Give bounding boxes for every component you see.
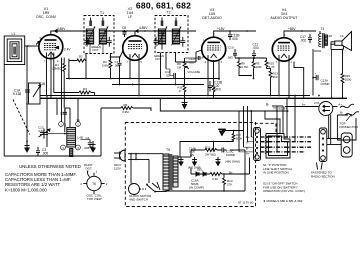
- wire T2 pin to AVC: [160, 53, 162, 79]
- rectifier line: [178, 156, 191, 158]
- svg-text:UNLESS OTHERWISE NOTED: UNLESS OTHERWISE NOTED: [19, 164, 81, 169]
- resistor R4 5.6M: [102, 57, 112, 79]
- svg-text:A+: A+: [246, 152, 250, 156]
- capacitor at T2 left: [154, 37, 159, 47]
- wire plug bottom: [128, 158, 149, 160]
- svg-text:100MF: 100MF: [226, 153, 236, 157]
- wire V1 grid return: [68, 59, 70, 79]
- tube V2: [123, 36, 148, 61]
- dashed extension to switch area: [255, 123, 277, 134]
- clock motor: [129, 184, 153, 202]
- svg-text:AUDIO OUTPUT: AUDIO OUTPUT: [270, 16, 298, 20]
- wire V2 plate up: [134, 31, 136, 36]
- trimmer cap C6 top: [102, 21, 105, 27]
- wire T2 sec to V3 diode: [175, 53, 177, 63]
- wire B+ jog to switch: [265, 111, 280, 134]
- svg-text:B-: B-: [246, 147, 249, 151]
- svg-text:WV: WV: [190, 153, 195, 157]
- switch contact strip right: [319, 128, 327, 162]
- svg-text:.005: .005: [232, 37, 238, 41]
- svg-text:680, 681, 682: 680, 681, 682: [136, 1, 191, 11]
- svg-text:A+: A+: [302, 102, 306, 106]
- svg-text:B-: B-: [340, 111, 343, 115]
- svg-text:RADIO SECTION: RADIO SECTION: [311, 175, 335, 179]
- svg-text:(IN COMP): (IN COMP): [189, 186, 204, 190]
- resistor R11 3.3M: [121, 103, 133, 114]
- bus A line: [40, 95, 310, 97]
- lever contact crosses: [265, 136, 269, 154]
- svg-text:COMP: COMP: [321, 82, 330, 86]
- wires V4 bottom: [278, 55, 280, 96]
- clock section dashed box: [125, 123, 255, 207]
- bottom supply line: [166, 190, 245, 192]
- capacitor C4: [81, 136, 94, 150]
- capacitor C12B: [228, 31, 239, 41]
- svg-text:C18: C18: [327, 34, 333, 38]
- svg-text:3.3K: 3.3K: [212, 177, 218, 181]
- svg-text:T2: T2: [167, 11, 171, 15]
- capacitor C11 .05: [165, 53, 175, 85]
- svg-text:AT 117V 60: AT 117V 60: [238, 201, 254, 205]
- resistor R12 2W 56: [205, 146, 219, 157]
- svg-text:B+: B+: [246, 135, 250, 139]
- svg-text:4.85V: 4.85V: [57, 27, 66, 31]
- svg-text:5.6M: 5.6M: [102, 64, 109, 68]
- svg-text:.05: .05: [166, 74, 171, 78]
- svg-text:1M: 1M: [177, 65, 182, 69]
- svg-text:OPERATION (ON VOL. CONT.): OPERATION (ON VOL. CONT.): [263, 189, 305, 193]
- wire antenna left down: [3, 65, 5, 157]
- wire V1 plate to B+ rail: [51, 31, 88, 35]
- switch frame S1: [266, 134, 290, 159]
- svg-text:★ MODELS 680 & 681 & 682: ★ MODELS 680 & 681 & 682: [263, 199, 303, 203]
- resistor R3 horizontal: [54, 87, 95, 96]
- svg-text:3.3M: 3.3M: [122, 110, 129, 114]
- capacitor C3: [36, 147, 48, 156]
- wire T1 coil bottom stubs: [90, 44, 103, 54]
- top connector box: [337, 115, 358, 141]
- svg-text:OSC. CONV: OSC. CONV: [36, 15, 57, 19]
- svg-text:A+: A+: [338, 102, 342, 106]
- capacitor C11: [252, 43, 259, 60]
- volume control R6 1M: [177, 58, 200, 74]
- svg-text:600Ω: 600Ω: [314, 49, 322, 53]
- wires V1 bottom pins: [46, 53, 48, 96]
- wire lower mid bus: [160, 98, 287, 111]
- capacitor C15A: [189, 179, 204, 190]
- wire V4 pin jog: [294, 62, 304, 99]
- svg-text:2 PL: 2 PL: [314, 101, 321, 105]
- svg-text:A-: A-: [246, 141, 249, 145]
- svg-text:+18V: +18V: [217, 27, 225, 31]
- wire coil pin2 up: [77, 98, 79, 121]
- svg-text:TO S2: TO S2: [273, 107, 282, 111]
- ground arrow clock box: [218, 129, 243, 135]
- B+ rail arrow: [55, 30, 58, 33]
- notes text block: [5, 164, 81, 192]
- svg-text:10MEG: 10MEG: [52, 67, 63, 71]
- svg-text:CONNECTOR: CONNECTOR: [339, 125, 359, 129]
- capacitor at T2 right: [180, 37, 185, 47]
- resistor R8 4.7M: [238, 58, 252, 76]
- switch contact strip left: [254, 128, 261, 161]
- wire speaker return: [331, 49, 343, 51]
- resistor R15 1000: [341, 50, 352, 99]
- speaker LS: [331, 32, 352, 51]
- svg-text:10M: 10M: [256, 65, 262, 69]
- ground left bottom: [24, 103, 29, 152]
- svg-text:C8: C8: [122, 26, 126, 30]
- IF transformer T1: [84, 11, 114, 54]
- tube V3: [202, 37, 226, 61]
- oscillator coil T6 schematic: [59, 119, 83, 157]
- wires to plug P1: [327, 138, 341, 140]
- resistor R13 360: [267, 69, 279, 96]
- svg-text:T6: T6: [92, 182, 96, 186]
- svg-text:DOT: DOT: [93, 48, 99, 52]
- selenium rectifier SEL: [191, 168, 210, 177]
- IF transformer T2: [154, 11, 188, 62]
- wires osc section verticals: [46, 96, 48, 148]
- svg-text:L1: L1: [12, 32, 16, 36]
- svg-text:C10: C10: [228, 46, 234, 50]
- lever junction dots: [286, 136, 288, 138]
- svg-text:B-: B-: [266, 103, 269, 107]
- ground right of coil: [90, 141, 95, 152]
- resistor R10 4.7K: [265, 58, 275, 69]
- tuning capacitor C1A: [13, 82, 45, 104]
- resistor R9 10M: [252, 58, 262, 79]
- svg-text:.002: .002: [300, 39, 306, 43]
- loop antenna L1: [4, 32, 25, 65]
- power transformer T5: [155, 148, 178, 192]
- svg-text:47: 47: [179, 89, 182, 93]
- wire mid link: [101, 107, 121, 109]
- svg-text:.004: .004: [253, 46, 259, 50]
- svg-text:T4: T4: [321, 27, 325, 31]
- pilot lamp circuit: [285, 101, 359, 116]
- wire T1 sec to V2 grid: [111, 51, 124, 58]
- trimmer C1C: [38, 126, 67, 139]
- wire top rail V2 area: [104, 30, 196, 32]
- svg-text:+: +: [315, 72, 317, 76]
- svg-text:.008: .008: [84, 146, 90, 150]
- ground C14: [188, 146, 201, 169]
- switch levers dash-dot: [261, 137, 312, 152]
- svg-text:T1: T1: [100, 11, 104, 15]
- resistor R14 27K: [223, 174, 233, 188]
- wire T2 primary top: [161, 31, 163, 50]
- arrow fastened: [317, 163, 323, 170]
- resistor R16 47: [178, 71, 186, 100]
- wire antenna top tap arrow: [36, 42, 39, 45]
- svg-text:L4B: L4B: [78, 136, 83, 140]
- svg-text:B+: B+: [283, 107, 287, 111]
- wire supply top row: [180, 142, 234, 158]
- ground mid supply: [216, 157, 221, 166]
- wires V3 bottom pins: [207, 55, 209, 96]
- wire left feed to clock switch: [238, 111, 240, 152]
- svg-text:TOP VIEW: TOP VIEW: [87, 197, 102, 201]
- wire antenna to V1 grid: [25, 45, 39, 47]
- resistor R2: [69, 54, 86, 79]
- wire V4 plate: [284, 31, 296, 38]
- svg-text:.005: .005: [189, 61, 195, 65]
- svg-text:VOLUME: VOLUME: [187, 70, 200, 74]
- svg-text:500K: 500K: [236, 136, 242, 140]
- bottom ground bus: [4, 155, 101, 157]
- output transformer T4: [314, 27, 332, 53]
- wire pilot down leads: [328, 115, 330, 139]
- wire plug top: [128, 153, 163, 155]
- ground lower mid: [182, 100, 188, 109]
- osc coil top view: [80, 163, 108, 201]
- wire V3 cathode row: [235, 57, 267, 59]
- gang dashed link: [13, 100, 30, 135]
- wire second bus: [112, 84, 204, 86]
- wires V2 bottom: [129, 54, 131, 79]
- svg-text:IN LINE POSITION: IN LINE POSITION: [263, 171, 289, 175]
- svg-text:LS: LS: [340, 34, 344, 38]
- resistor R1 10MEG vertical: [52, 58, 66, 109]
- capacitor C12A: [185, 54, 204, 65]
- capacitor C2: [60, 108, 67, 132]
- svg-text:AND SWITCH: AND SWITCH: [129, 198, 148, 202]
- svg-text:4.7M: 4.7M: [241, 65, 248, 69]
- svg-text:DET-AUDIO: DET-AUDIO: [202, 16, 222, 20]
- capacitor C13B electrolytic: [208, 81, 222, 92]
- capacitor C13A electrolytic: [312, 49, 329, 96]
- svg-text:9-138: 9-138: [13, 92, 21, 96]
- tube pin numbers: [40, 33, 293, 64]
- plug P1 right: [341, 133, 352, 157]
- svg-text:360: 360: [273, 75, 278, 79]
- svg-text:R2: R2: [79, 55, 83, 59]
- capacitor C17: [300, 34, 312, 43]
- svg-text:.005: .005: [42, 152, 48, 156]
- bus B line thick: [40, 97, 347, 99]
- svg-text:DOT: DOT: [86, 166, 93, 170]
- capacitor C7: [114, 57, 122, 78]
- wire V3 plate rail: [214, 31, 256, 37]
- svg-text:27K: 27K: [227, 183, 232, 187]
- capacitor C6 at T1: [107, 37, 112, 47]
- wire to motor: [130, 154, 132, 184]
- svg-text:115V: 115V: [114, 167, 121, 171]
- svg-text:.005: .005: [227, 56, 233, 60]
- svg-text:MFD: MFD: [214, 88, 222, 92]
- AC plug: [114, 150, 125, 171]
- tube V4: [272, 38, 295, 61]
- svg-text:T5: T5: [166, 148, 170, 152]
- svg-text:1000: 1000: [345, 78, 352, 82]
- svg-text:K=1000 M=1,000,000: K=1000 M=1,000,000: [5, 187, 47, 192]
- svg-text:(480 OHM): (480 OHM): [225, 160, 240, 164]
- resistor R13b 3.3K: [210, 173, 224, 182]
- pin circles: [59, 122, 64, 127]
- resistor R17 500K: [232, 131, 242, 142]
- svg-text:2W 56Ω: 2W 56Ω: [205, 153, 217, 157]
- wire V1 pin column b: [61, 58, 63, 122]
- capacitor C10: [227, 46, 237, 60]
- capacitor C5 at T1: [85, 37, 90, 47]
- AVC bus wire: [66, 78, 219, 80]
- tube V1: [39, 35, 63, 59]
- wire antenna right down to tuning cap: [26, 46, 28, 147]
- svg-text:2.4V: 2.4V: [64, 48, 71, 52]
- svg-text:SEL.: SEL.: [197, 168, 204, 172]
- wire verticals into clock switch: [276, 106, 278, 152]
- ground T5: [179, 157, 184, 166]
- svg-text:C1B: C1B: [39, 82, 45, 86]
- motor switch: [140, 182, 161, 193]
- trimmer cap C5 top: [89, 21, 92, 27]
- svg-text:4.85V: 4.85V: [139, 26, 148, 30]
- capacitor C13C: [219, 148, 240, 164]
- svg-text:+85V: +85V: [288, 27, 296, 31]
